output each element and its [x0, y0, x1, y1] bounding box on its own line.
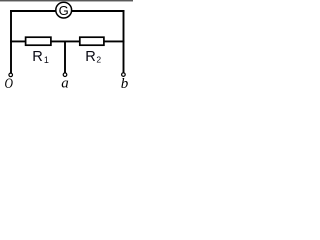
terminal a: [61, 73, 68, 92]
svg-text:1: 1: [44, 55, 49, 65]
svg-text:a: a: [61, 76, 68, 92]
wire branch right: [104, 40, 125, 42]
svg-text:O: O: [5, 75, 14, 91]
wire branch left: [10, 40, 27, 42]
wire right vertical: [123, 10, 125, 73]
wire top-right: [71, 10, 124, 12]
svg-text:R: R: [85, 49, 96, 65]
resistor R1: [26, 37, 51, 65]
svg-text:G: G: [59, 3, 69, 18]
wire top-left: [10, 10, 57, 12]
wire middle vertical to a: [64, 41, 66, 73]
terminal O: [5, 73, 14, 91]
resistor R2: [80, 37, 104, 65]
wire between resistors: [51, 40, 80, 42]
galvanometer G: [56, 2, 72, 18]
wire left vertical: [10, 10, 12, 73]
svg-text:b: b: [121, 76, 129, 91]
svg-text:R: R: [32, 49, 43, 65]
terminal b: [121, 73, 129, 92]
svg-text:2: 2: [96, 55, 101, 65]
